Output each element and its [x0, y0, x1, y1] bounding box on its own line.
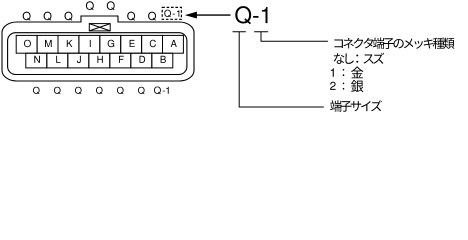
terminal letters row 2: N L J H F D B [34, 56, 166, 63]
callout text Q-1 [235, 6, 267, 24]
note text: ：金 [343, 67, 364, 79]
note text digit 1 [331, 68, 334, 77]
terminal cavity row 1 (O M K I G E C A) [16, 35, 183, 53]
bottom label Q-1 [154, 87, 169, 95]
connector outer shell with lock tab [2, 16, 194, 81]
note text: 端子サイズ [330, 100, 382, 112]
leader line from 1 to plating note [254, 32, 328, 42]
lock tab box with X [89, 24, 110, 31]
highlighted terminal dashed box [162, 7, 181, 19]
terminal plating labels Q (top row) [23, 12, 156, 21]
note text digit 2 [330, 82, 336, 90]
terminal plating labels Q (bottom row) [33, 87, 145, 94]
arrow pointing to dashed box [196, 14, 231, 16]
terminal cavity row 2 (N L J H F D B) [26, 53, 173, 68]
terminal letters row 1: O M K I G E C A [24, 40, 177, 47]
note text: コネクタ端子のメッキ種類 [334, 38, 454, 49]
terminal plating labels Q (raised, above lock tab) [86, 1, 115, 10]
note text: なし：スズ [334, 53, 384, 64]
label Q-1 in dashed box [164, 10, 179, 18]
note text: ：銀 [343, 80, 364, 92]
leader line from Q to terminal size note [233, 32, 324, 107]
connector inner shell [8, 33, 187, 75]
